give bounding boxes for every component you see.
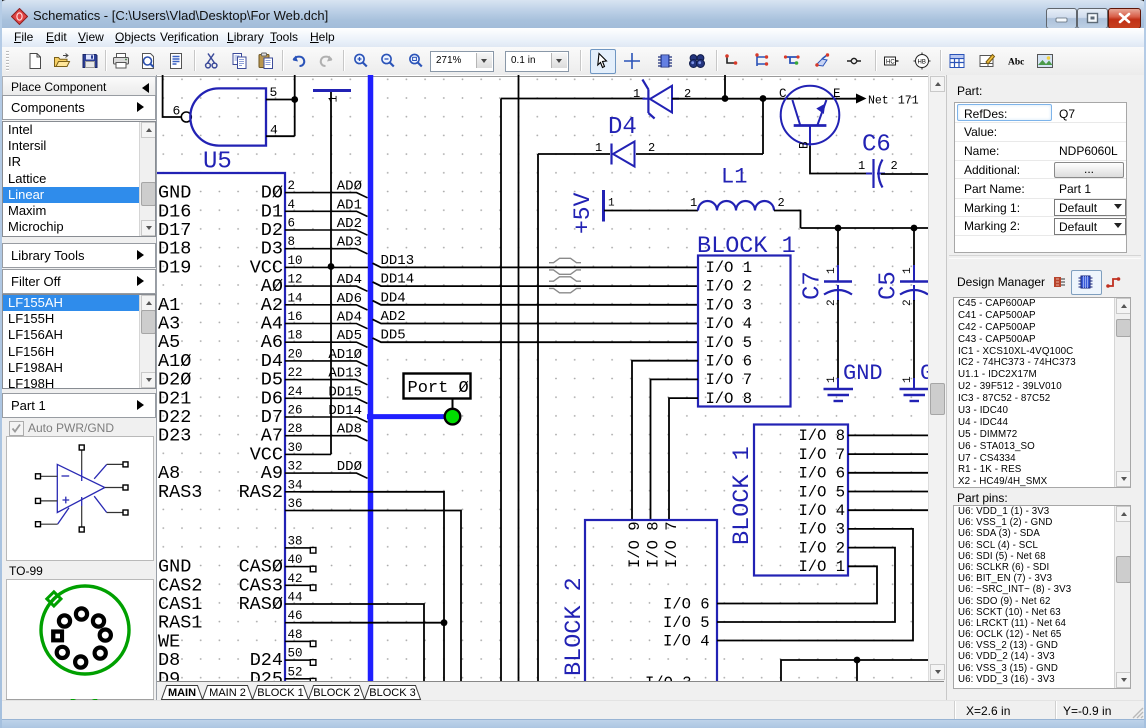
svg-text:52: 52 (288, 665, 303, 679)
svg-text:6: 6 (288, 217, 296, 231)
HB icon (913, 52, 931, 70)
wire net DD14 bus to BLOCK 1 (373, 282, 699, 286)
svg-text:2: 2 (288, 179, 296, 193)
svg-text:I/O 8: I/O 8 (706, 390, 753, 408)
svg-text:6: 6 (173, 104, 181, 119)
wire vertical C (537, 154, 539, 681)
svg-text:40: 40 (288, 553, 303, 567)
IC U1 pin 14 (158, 291, 303, 316)
svg-text:2: 2 (778, 196, 785, 210)
svg-text:12: 12 (288, 273, 303, 287)
svg-text:AD5: AD5 (337, 328, 362, 344)
svg-text:C: C (779, 87, 787, 101)
svg-text:AD3: AD3 (337, 235, 362, 251)
svg-text:BLOCK 1: BLOCK 1 (729, 446, 756, 545)
svg-text:I/O 3: I/O 3 (706, 296, 753, 314)
IC U1 pin 44 (158, 591, 303, 616)
wire row 36 (300, 511, 461, 682)
picture (1036, 52, 1054, 70)
svg-text:I/O 5: I/O 5 (663, 614, 710, 632)
wire vertical B (518, 75, 520, 681)
svg-text:BLOCK 2: BLOCK 2 (313, 687, 359, 699)
print (112, 52, 130, 70)
junction row46 (441, 619, 448, 626)
svg-text:24: 24 (288, 385, 303, 399)
svg-text:AD2: AD2 (337, 216, 362, 232)
svg-text:1: 1 (327, 95, 341, 102)
preview (139, 52, 157, 70)
table (948, 52, 966, 70)
wire net AD1 pin 4 to bus (300, 211, 368, 216)
svg-text:26: 26 (288, 404, 303, 418)
IC U1 pin 40 (158, 553, 303, 578)
svg-text:1: 1 (608, 198, 615, 210)
svg-text:4: 4 (270, 123, 278, 138)
svg-text:1: 1 (902, 267, 914, 274)
svg-text:D19: D19 (158, 257, 191, 278)
svg-text:I/O 1: I/O 1 (706, 259, 753, 277)
wire tool 1 (724, 52, 742, 70)
find (688, 52, 706, 70)
IC U1 pin 36 (285, 497, 303, 511)
capacitor C7 (800, 265, 853, 306)
wire net AD8 pin 28 to bus (300, 436, 368, 441)
svg-text:50: 50 (288, 647, 303, 661)
wire to U5 pin 6 (163, 75, 181, 117)
power +5V (570, 190, 615, 234)
wire net DD4 bus to BLOCK 1 (373, 301, 699, 305)
bus branch to Port 0 node (367, 414, 444, 419)
titleblock edit (978, 52, 996, 70)
IC U1 pin 18 (158, 329, 303, 354)
wire BLOCK1b I/O4 (848, 509, 928, 511)
wire VCC vertical (330, 92, 332, 454)
IC U1 pin 22 (158, 366, 303, 391)
junction bottom (854, 657, 861, 664)
svg-text:I/O 4: I/O 4 (663, 632, 710, 650)
Abc (1007, 52, 1025, 70)
hierarchy block BLOCK 1 (697, 233, 796, 408)
svg-text:HB: HB (918, 60, 926, 66)
CANVAS_START (157, 75, 928, 681)
svg-text:DD4: DD4 (381, 290, 406, 306)
svg-text:GND: GND (843, 361, 883, 386)
inductor L1 (690, 165, 785, 211)
svg-text:DD13: DD13 (381, 253, 415, 269)
IC U1 pin 52 (158, 665, 303, 690)
IC U1 pin 4 (158, 198, 300, 223)
net port arrow Net 171 (856, 94, 919, 108)
wire C5 pin 1 (913, 228, 915, 266)
svg-text:BLOCK 2: BLOCK 2 (561, 577, 588, 676)
power rail bar (313, 89, 351, 92)
paste (257, 52, 275, 70)
svg-text:1: 1 (858, 159, 865, 173)
wire BLOCK1b I/O3 to BLOCK2 I/O4 (717, 529, 913, 641)
open pin square row 48 (300, 640, 310, 642)
wire net AD1Ø pin 20 to bus (300, 361, 368, 366)
open pin square row 42 (300, 584, 310, 586)
wire net AD2 bus to BLOCK 1 (373, 319, 699, 323)
IC U1 pin 24 (158, 385, 303, 410)
opamp preview (6, 436, 154, 561)
svg-text:1: 1 (690, 196, 697, 210)
IC U1 pin 42 (158, 572, 303, 597)
open (53, 52, 71, 70)
IC U1 pin 38 (285, 534, 303, 548)
wire pin 10 to bus (300, 266, 368, 268)
svg-text:Port Ø: Port Ø (408, 379, 469, 398)
svg-text:44: 44 (288, 591, 303, 605)
IC U1 pin 12 (261, 273, 303, 298)
copy (231, 52, 249, 70)
wire net AD4 pin 12 to bus (300, 286, 368, 291)
open pin square row 38 (300, 547, 310, 549)
svg-text:RASØ: RASØ (239, 594, 283, 615)
place component (656, 52, 674, 70)
wire net DDØ pin 32 to bus (300, 473, 368, 478)
wire net AD13 pin 22 to bus (300, 380, 368, 385)
svg-text:D23: D23 (158, 426, 191, 447)
open pin square row 50 (300, 659, 310, 661)
wire net DD5 bus to BLOCK 1 (373, 338, 699, 342)
svg-text:I/O 5: I/O 5 (706, 334, 753, 352)
svg-text:AD4: AD4 (337, 310, 362, 326)
svg-text:32: 32 (288, 460, 303, 474)
gate U5 (190, 88, 266, 145)
diode D4 (595, 114, 655, 167)
svg-text:DDØ: DDØ (337, 459, 362, 475)
svg-text:DD14: DD14 (381, 272, 415, 288)
wire net DD13 bus to BLOCK 1 (373, 263, 699, 267)
HC icon (882, 52, 900, 70)
svg-text:I/O 5: I/O 5 (798, 483, 845, 501)
Port 0 label box (404, 374, 471, 399)
svg-text:HC: HC (886, 60, 895, 66)
svg-text:AD6: AD6 (337, 291, 362, 307)
svg-text:D9: D9 (158, 669, 180, 681)
save (81, 52, 99, 70)
wire main top net (501, 98, 645, 100)
svg-text:L1: L1 (721, 165, 747, 190)
wire D4 pin 2 (636, 153, 763, 155)
IC U1 pin 46 (158, 609, 303, 634)
svg-text:I/O 3: I/O 3 (798, 521, 845, 539)
svg-text:1: 1 (595, 141, 602, 155)
svg-text:22: 22 (288, 366, 303, 380)
app icon (11, 8, 28, 25)
IC U1 pin 26 (158, 404, 303, 429)
wire hop symbols (549, 258, 581, 292)
wire L1 pin 2 (774, 211, 801, 229)
wire BLOCK1b I/O6 (848, 472, 928, 474)
U5 inversion bubble (181, 112, 191, 122)
svg-text:14: 14 (288, 291, 303, 305)
new (26, 52, 44, 70)
svg-text:I/O 7: I/O 7 (663, 521, 681, 568)
wire top branch down (724, 75, 726, 99)
wire net AD6 pin 14 to bus (300, 305, 368, 310)
svg-text:I/O 7: I/O 7 (798, 446, 845, 464)
svg-text:AD13: AD13 (328, 366, 362, 382)
wire pin 30 VCC (300, 453, 331, 455)
ground C5 (900, 361, 934, 401)
wire row 44 (300, 604, 424, 681)
wire C6 pin 2 (881, 173, 928, 175)
wire row 34 (300, 492, 444, 681)
svg-text:RAS2: RAS2 (239, 482, 283, 503)
svg-text:I/O 2: I/O 2 (706, 278, 753, 296)
IC U1 pin 2 (158, 179, 300, 204)
wire BLOCK1 I/O6 down (632, 361, 698, 520)
wire net ADØ pin 2 to bus (300, 193, 368, 198)
svg-text:36: 36 (288, 497, 303, 511)
IC U1 pin 48 (158, 628, 303, 653)
wire C5 pin 2 (913, 300, 915, 379)
wire to D4 pin 1 (538, 153, 610, 155)
svg-text:2: 2 (891, 159, 898, 173)
svg-text:I/O 4: I/O 4 (798, 502, 845, 520)
wire tool 2 (754, 52, 772, 70)
IC U1 pin 34 (158, 478, 303, 503)
svg-text:20: 20 (288, 347, 303, 361)
svg-text:2: 2 (826, 299, 838, 306)
svg-text:I/O 3: I/O 3 (645, 674, 692, 681)
dm icon buttons (1052, 274, 1069, 290)
svg-text:C7: C7 (800, 271, 827, 300)
svg-text:2: 2 (648, 141, 655, 155)
svg-text:I/O 8: I/O 8 (798, 427, 845, 445)
svg-text:MAIN: MAIN (168, 687, 196, 699)
svg-text:46: 46 (288, 609, 303, 623)
cut (203, 52, 221, 70)
wire U5 pin 4 (266, 135, 295, 137)
junction at U5 pin 5 (291, 96, 298, 103)
wire BLOCK1b I/O7 (848, 453, 928, 455)
open pin square row 40 (300, 566, 310, 568)
svg-text:1: 1 (902, 376, 914, 383)
bus tool (783, 52, 801, 70)
wire +5V to L1 (604, 210, 698, 212)
wire Q7 base (810, 146, 866, 174)
svg-text:2: 2 (902, 299, 914, 306)
zoom window (407, 52, 425, 70)
svg-text:48: 48 (288, 628, 303, 642)
redo (disabled) (317, 52, 335, 70)
wire net DD14 pin 26 to bus (300, 417, 368, 422)
zoom in (352, 52, 370, 70)
hierarchy block BLOCK 2 (561, 520, 717, 692)
svg-text:C6: C6 (862, 132, 891, 159)
IC U1 pin 8 (158, 235, 300, 260)
wire C7 pin 2 (837, 300, 839, 379)
IC U1 pin 50 (158, 647, 303, 672)
svg-text:28: 28 (288, 422, 303, 436)
IC U1 outline (155, 173, 285, 682)
to-99 preview (6, 579, 154, 702)
svg-text:AD1Ø: AD1Ø (328, 347, 362, 363)
wire zener to Q7 (672, 98, 857, 100)
svg-text:38: 38 (288, 534, 303, 548)
svg-text:E: E (833, 87, 841, 101)
junction VCC row 10 (328, 263, 335, 270)
wire BLOCK1b I/O1 to BLOCK2 I/O6 (717, 566, 877, 603)
crosshair (623, 52, 641, 70)
pointer (pressed) (590, 49, 616, 74)
svg-text:AD2: AD2 (381, 309, 406, 325)
svg-text:U5: U5 (203, 149, 232, 176)
svg-text:I/O 2: I/O 2 (798, 539, 845, 557)
wire supply rail (801, 227, 929, 229)
IC U1 pin 32 (158, 460, 303, 485)
svg-text:5: 5 (270, 85, 278, 100)
svg-text:ADØ: ADØ (337, 179, 362, 195)
wire C7 pin 1 (837, 228, 839, 266)
wire net DD15 pin 24 to bus (300, 398, 368, 403)
svg-text:I/O 6: I/O 6 (663, 595, 710, 613)
wire vertical A (500, 99, 502, 682)
IC U1 pin 16 (158, 310, 303, 335)
hierarchy block BLOCK 1 lower (729, 425, 848, 577)
svg-text:I/O 8: I/O 8 (645, 521, 663, 568)
IC U1 pin 30 (250, 441, 303, 466)
wire branch to D4 (762, 99, 764, 155)
svg-text:RAS3: RAS3 (158, 482, 202, 503)
wire net AD2 pin 6 to bus (300, 230, 368, 235)
svg-text:DD14: DD14 (328, 403, 362, 419)
wire BLOCK1b I/O2 to BLOCK2 I/O5 (717, 548, 895, 622)
svg-text:BLOCK 1: BLOCK 1 (257, 687, 303, 699)
svg-text:AD4: AD4 (337, 272, 362, 288)
svg-text:DD5: DD5 (381, 328, 406, 344)
IC U1 pin 10 (158, 254, 303, 279)
transistor Q7 (779, 86, 841, 149)
svg-text:DD15: DD15 (328, 384, 362, 400)
svg-text:1: 1 (826, 376, 838, 383)
svg-text:10: 10 (288, 254, 303, 268)
bus Port 0 (vertical, selected) (368, 75, 374, 681)
junction top net 1 (722, 95, 729, 102)
wire BLOCK1b I/O5 (848, 491, 928, 493)
ground C7 (824, 361, 883, 401)
wire Port 0 stub (452, 399, 454, 409)
svg-text:I/O 7: I/O 7 (706, 371, 753, 389)
svg-text:30: 30 (288, 441, 303, 455)
svg-text:I/O 1: I/O 1 (798, 558, 845, 576)
svg-text:AD8: AD8 (337, 422, 362, 438)
svg-text:42: 42 (288, 572, 303, 586)
svg-text:D4: D4 (608, 114, 637, 141)
wire net AD3 pin 8 to bus (300, 249, 368, 254)
net port (845, 52, 863, 70)
svg-text:+5V: +5V (570, 192, 596, 234)
zener diode (633, 80, 691, 119)
capacitor C6 (858, 132, 898, 189)
svg-text:34: 34 (288, 478, 303, 492)
wire U5 output vertical (294, 75, 296, 136)
svg-text:1: 1 (633, 87, 640, 101)
wire BLOCK1b I/O8 (848, 434, 928, 436)
svg-text:BLOCK 3: BLOCK 3 (369, 687, 415, 699)
svg-text:D25: D25 (250, 669, 283, 681)
open pin square row 52 (300, 678, 310, 680)
wire BLOCK1 I/O8 down (669, 398, 698, 520)
svg-text:I/O 4: I/O 4 (706, 315, 753, 333)
wire BLOCK1 I/O7 down (651, 379, 699, 520)
svg-text:8: 8 (288, 235, 296, 249)
undo (290, 52, 308, 70)
svg-text:I/O 6: I/O 6 (706, 353, 753, 371)
svg-text:16: 16 (288, 310, 303, 324)
svg-text:I/O 6: I/O 6 (798, 465, 845, 483)
IC U1 pin 6 (158, 217, 300, 242)
svg-text:G: G (920, 361, 928, 386)
svg-text:4: 4 (288, 198, 296, 212)
doc-lines (167, 52, 185, 70)
wire row 46 (300, 622, 444, 624)
svg-text:18: 18 (288, 329, 303, 343)
wire net AD5 pin 18 to bus (300, 342, 368, 347)
junction rail C7 (835, 225, 842, 232)
wire net AD4 pin 16 to bus (300, 324, 368, 329)
zoom out (379, 52, 397, 70)
wire U5 pin 5 (266, 99, 295, 101)
capacitor C5 (876, 265, 929, 306)
junction rail C5 (911, 225, 918, 232)
IC U1 pin 20 (158, 347, 303, 372)
IC U1 pin 28 (158, 422, 303, 447)
svg-text:Net 171: Net 171 (868, 95, 919, 108)
svg-text:1: 1 (826, 267, 838, 274)
junction top net 2 (760, 95, 767, 102)
search field (6, 699, 154, 718)
svg-text:C5: C5 (876, 271, 903, 300)
svg-text:MAIN 2: MAIN 2 (209, 687, 246, 699)
auto pwr/gnd checkbox (9, 421, 24, 436)
svg-text:I/O 9: I/O 9 (626, 521, 644, 568)
svg-text:Abc: Abc (1008, 58, 1024, 68)
node Port 0 (green) (445, 409, 461, 425)
bus connect (813, 52, 831, 70)
wire bottom net (781, 660, 928, 681)
svg-text:AD1: AD1 (337, 197, 362, 213)
wire bottom branch (856, 660, 858, 681)
